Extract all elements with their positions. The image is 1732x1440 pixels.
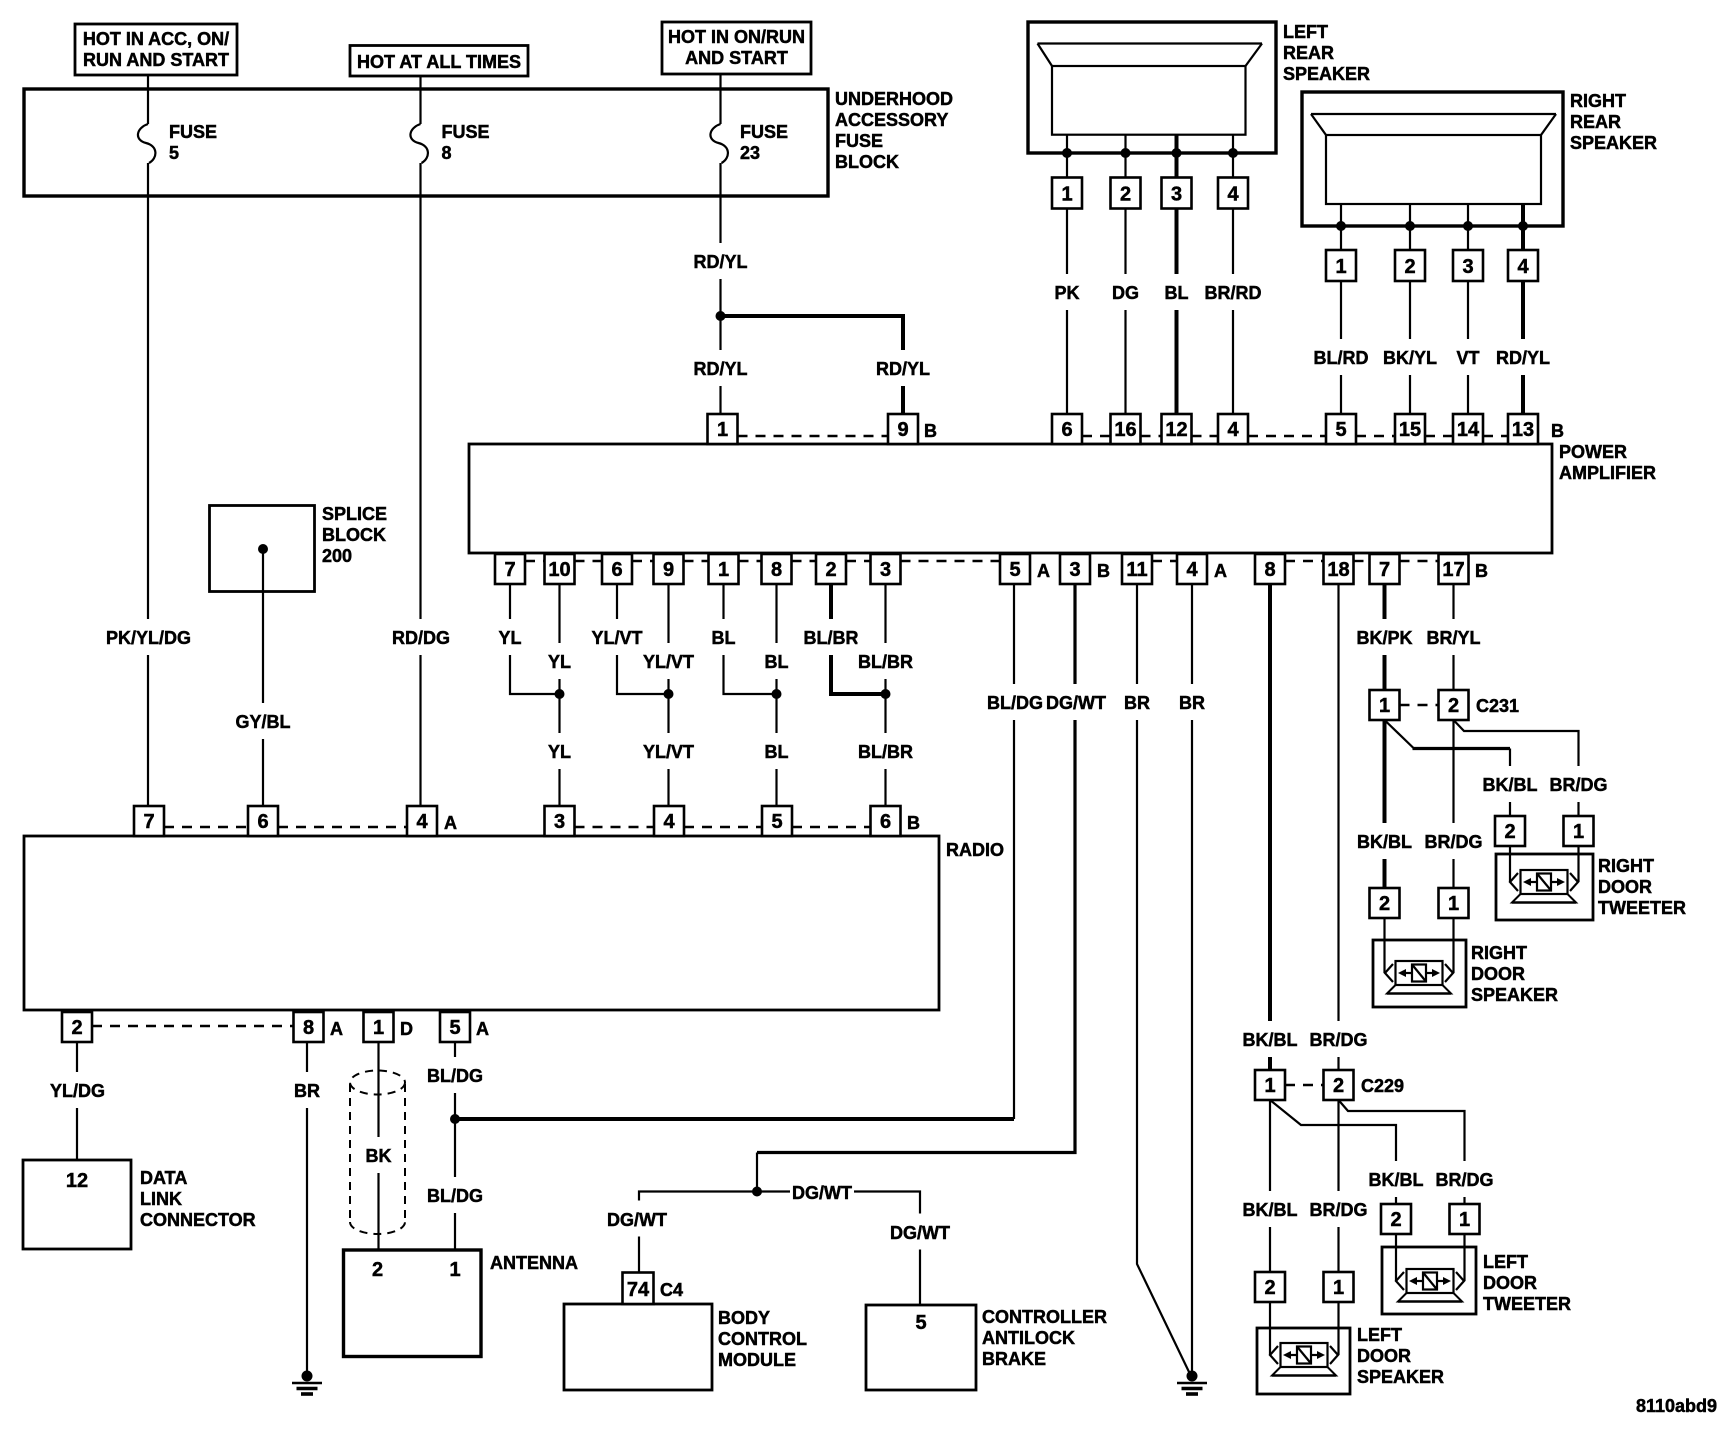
right rear speaker lead wires xyxy=(1336,204,1528,250)
left door tweeter pin 1 xyxy=(1450,1204,1480,1234)
svg-text:1: 1 xyxy=(373,1017,384,1039)
wire C229 pin 2 to left door speaker pin 1 BR/DG xyxy=(1308,1100,1370,1272)
svg-text:DG/WT: DG/WT xyxy=(1046,693,1106,713)
svg-text:C229: C229 xyxy=(1361,1076,1404,1096)
amp bottom pin 8 right xyxy=(1255,554,1285,584)
wire left rear speaker pin2 to amp pin 16 DG xyxy=(1108,209,1143,415)
svg-text:A: A xyxy=(1037,561,1050,581)
svg-text:2: 2 xyxy=(825,559,836,581)
svg-text:REAR: REAR xyxy=(1283,43,1334,63)
svg-text:3: 3 xyxy=(880,559,891,581)
amp bottom pin 17 xyxy=(1439,554,1489,584)
svg-text:BR/DG: BR/DG xyxy=(1310,1030,1368,1050)
svg-text:7: 7 xyxy=(1379,559,1390,581)
svg-text:YL/VT: YL/VT xyxy=(591,628,642,648)
svg-text:LEFT: LEFT xyxy=(1357,1325,1402,1345)
svg-text:DOOR: DOOR xyxy=(1598,877,1652,897)
svg-text:A: A xyxy=(444,813,457,833)
amp bottom connector dashes xyxy=(525,560,1439,562)
svg-text:2: 2 xyxy=(1404,256,1415,278)
wire amp pin 7 to C231 pin 1 BK/PK xyxy=(1356,584,1413,690)
svg-text:SPEAKER: SPEAKER xyxy=(1357,1367,1444,1387)
svg-text:GY/BL: GY/BL xyxy=(235,712,290,732)
svg-text:SPEAKER: SPEAKER xyxy=(1283,64,1370,84)
amp top pin 12 xyxy=(1162,414,1192,444)
svg-text:DOOR: DOOR xyxy=(1357,1346,1411,1366)
svg-text:RIGHT: RIGHT xyxy=(1570,91,1626,111)
left door speaker pin 1 xyxy=(1324,1272,1354,1302)
wire DG/WT to controller antilock brake xyxy=(757,1174,952,1306)
wire radio pin 5 to antenna pin 1 BL/DG xyxy=(425,1042,486,1250)
svg-text:3: 3 xyxy=(1171,184,1182,206)
svg-text:RIGHT: RIGHT xyxy=(1471,943,1527,963)
radio top pin 3 xyxy=(545,806,575,836)
svg-text:BODY: BODY xyxy=(718,1308,770,1328)
wire C229 pin 1 branch to left door tweeter pin 2 BK/BL xyxy=(1270,1100,1424,1204)
svg-text:RIGHT: RIGHT xyxy=(1598,856,1654,876)
wire fuse 5 to radio pin 7 PK/YL/DG xyxy=(103,163,193,806)
svg-text:CONNECTOR: CONNECTOR xyxy=(140,1210,256,1230)
svg-text:74: 74 xyxy=(627,1279,650,1301)
svg-text:BL: BL xyxy=(1165,283,1189,303)
svg-text:16: 16 xyxy=(1114,419,1136,441)
wire amp pin 18 to C229 pin 2 BR/DG xyxy=(1308,584,1370,1070)
wire right rear speaker pin4 to amp pin 13 RD/YL xyxy=(1494,281,1552,414)
wire right rear speaker pin1 to amp pin 5 BL/RD xyxy=(1312,281,1370,414)
svg-text:VT: VT xyxy=(1456,348,1479,368)
fuse 23 xyxy=(710,89,788,163)
junction DG/WT xyxy=(752,1187,762,1197)
junction BL/DG xyxy=(450,1114,460,1124)
wire C229 pin 2 branch to left door tweeter pin 1 BR/DG xyxy=(1339,1100,1497,1204)
wire amp pin 3 B DG/WT tree xyxy=(757,584,1106,1192)
svg-text:11: 11 xyxy=(1126,559,1147,581)
svg-text:DATA: DATA xyxy=(140,1168,187,1188)
svg-text:2: 2 xyxy=(1379,893,1390,915)
svg-text:10: 10 xyxy=(548,559,570,581)
wire branch BL/DG to amp pin 5 A xyxy=(455,584,1044,1119)
svg-text:BL/DG: BL/DG xyxy=(427,1066,483,1086)
left door tweeter pin 2 xyxy=(1381,1204,1411,1234)
svg-text:BR: BR xyxy=(294,1081,320,1101)
wire amp pin 11 BR to ground xyxy=(1119,584,1190,1374)
svg-text:CONTROLLER: CONTROLLER xyxy=(982,1307,1107,1327)
svg-text:HOT IN ON/RUN: HOT IN ON/RUN xyxy=(668,27,805,47)
amp bottom pin 1 xyxy=(709,554,739,584)
svg-text:BR/RD: BR/RD xyxy=(1205,283,1262,303)
splice block 200 xyxy=(210,504,388,592)
amp bottom pin 6 xyxy=(602,554,632,584)
amp bottom pin 3 B xyxy=(1060,554,1110,584)
amp top pin 5 xyxy=(1326,414,1356,444)
svg-text:3: 3 xyxy=(554,811,565,833)
svg-text:DOOR: DOOR xyxy=(1483,1273,1537,1293)
svg-text:YL: YL xyxy=(548,652,571,672)
svg-text:5: 5 xyxy=(915,1312,926,1334)
svg-text:A: A xyxy=(330,1019,343,1039)
amp top connector dashes xyxy=(738,435,1509,437)
svg-text:5: 5 xyxy=(449,1017,460,1039)
svg-text:B: B xyxy=(907,813,920,833)
svg-text:AMPLIFIER: AMPLIFIER xyxy=(1559,463,1656,483)
junction BL/BR xyxy=(881,689,891,699)
wire C231 pin 1 to right door speaker pin 2 BK/BL xyxy=(1356,720,1412,888)
svg-text:4: 4 xyxy=(416,811,428,833)
svg-text:FUSE: FUSE xyxy=(169,122,217,142)
svg-text:7: 7 xyxy=(504,559,515,581)
svg-text:YL: YL xyxy=(498,628,521,648)
svg-text:1: 1 xyxy=(449,1259,460,1281)
svg-text:18: 18 xyxy=(1327,559,1349,581)
svg-text:BK/BL: BK/BL xyxy=(1243,1030,1298,1050)
right rear speaker pin 3 xyxy=(1453,250,1483,281)
amp top pin 6 xyxy=(1052,414,1082,444)
svg-text:BL/RD: BL/RD xyxy=(1314,348,1369,368)
wire C231 pin 2 branch to right door tweeter pin 1 BR/DG xyxy=(1454,720,1611,816)
radio top pin 6 xyxy=(248,806,278,836)
svg-text:6: 6 xyxy=(880,811,891,833)
svg-text:9: 9 xyxy=(897,419,908,441)
svg-text:LEFT: LEFT xyxy=(1283,22,1328,42)
wire amp pin 9 to radio pin 4 YL/VT xyxy=(641,584,697,806)
svg-text:1: 1 xyxy=(718,559,729,581)
wire left rear speaker pin3 to amp pin 12 BL xyxy=(1161,209,1192,415)
svg-text:BRAKE: BRAKE xyxy=(982,1349,1046,1369)
svg-text:BR: BR xyxy=(1124,693,1150,713)
svg-text:PK: PK xyxy=(1054,283,1079,303)
svg-text:8: 8 xyxy=(771,559,782,581)
wire hot all times box to fuse block xyxy=(419,76,421,89)
wire amp pin 6 YL/VT to junction xyxy=(589,584,669,694)
left rear speaker pin 4 xyxy=(1218,178,1248,209)
svg-text:ACCESSORY: ACCESSORY xyxy=(835,110,948,130)
amp bottom pin 7 xyxy=(495,554,525,584)
radio bottom pin 8 A xyxy=(294,1012,344,1042)
wire branch RD/YL to amp pin 9 xyxy=(721,316,933,414)
amp bottom pin 8 xyxy=(762,554,792,584)
svg-text:8110abd9: 8110abd9 xyxy=(1636,1396,1717,1416)
svg-text:2: 2 xyxy=(1120,184,1131,206)
power amplifier box xyxy=(469,442,1656,553)
radio top pin 4 xyxy=(654,806,684,836)
svg-text:BL: BL xyxy=(712,628,736,648)
wire hot acc box to fuse block xyxy=(147,75,149,89)
svg-text:HOT IN ACC, ON/: HOT IN ACC, ON/ xyxy=(83,29,229,49)
svg-text:BK/BL: BK/BL xyxy=(1357,832,1412,852)
svg-text:BL/BR: BL/BR xyxy=(858,742,913,762)
svg-text:BR/DG: BR/DG xyxy=(1310,1200,1368,1220)
svg-text:RADIO: RADIO xyxy=(946,840,1004,860)
svg-text:3: 3 xyxy=(1462,256,1473,278)
wire hot on/run box to fuse block xyxy=(719,74,721,89)
svg-text:TWEETER: TWEETER xyxy=(1483,1294,1571,1314)
radio bottom connector dashes xyxy=(92,1025,294,1027)
connector C231 xyxy=(1370,690,1520,720)
wire splice block to radio pin 6 GY/BL xyxy=(233,549,293,806)
svg-text:BL/DG: BL/DG xyxy=(427,1186,483,1206)
amp bottom pin 18 xyxy=(1324,554,1354,584)
radio top pin 5 xyxy=(762,806,792,836)
svg-text:1: 1 xyxy=(1379,695,1390,717)
svg-text:1: 1 xyxy=(1061,184,1072,206)
amp top pin 9 xyxy=(888,414,937,444)
svg-text:MODULE: MODULE xyxy=(718,1350,796,1370)
svg-text:RUN AND START: RUN AND START xyxy=(83,50,229,70)
svg-text:1: 1 xyxy=(1264,1075,1275,1097)
left door tweeter xyxy=(1382,1234,1571,1314)
wire left rear speaker pin4 to amp pin 4 BR/RD xyxy=(1204,209,1262,415)
junction RD/YL xyxy=(716,311,726,321)
svg-text:2: 2 xyxy=(1504,821,1515,843)
fuse 5 xyxy=(138,89,217,163)
wire amp pin 3 to radio pin 6 BL/BR xyxy=(858,584,914,806)
svg-text:4: 4 xyxy=(1186,559,1198,581)
body control module xyxy=(564,1273,807,1391)
svg-text:5: 5 xyxy=(169,143,179,163)
svg-text:15: 15 xyxy=(1399,419,1421,441)
left rear speaker pin 1 xyxy=(1052,178,1082,209)
shield cylinder BK xyxy=(350,1071,405,1235)
svg-text:BL: BL xyxy=(765,652,789,672)
right door speaker xyxy=(1373,918,1558,1007)
left door speaker xyxy=(1257,1302,1444,1394)
svg-text:B: B xyxy=(1475,561,1488,581)
svg-text:BK/PK: BK/PK xyxy=(1356,628,1412,648)
svg-text:YL: YL xyxy=(548,742,571,762)
right door tweeter pin 1 xyxy=(1564,816,1594,846)
svg-text:BL/DG: BL/DG xyxy=(987,693,1043,713)
wire right rear speaker pin3 to amp pin 14 VT xyxy=(1452,281,1484,414)
svg-text:1: 1 xyxy=(717,419,728,441)
left rear speaker pin 2 xyxy=(1111,178,1141,209)
svg-text:DG: DG xyxy=(1112,283,1139,303)
svg-text:9: 9 xyxy=(663,559,674,581)
junction BL xyxy=(772,689,782,699)
wire amp pin 8 to C229 pin 1 BK/BL xyxy=(1242,584,1298,1070)
svg-text:CONTROL: CONTROL xyxy=(718,1329,807,1349)
wire amp pin 2 BL/BR to junction xyxy=(803,584,886,694)
wire radio pin 8 to ground BR xyxy=(289,1042,325,1374)
svg-text:BLOCK: BLOCK xyxy=(835,152,899,172)
wire fuse 8 to radio pin 4A RD/DG xyxy=(392,163,450,806)
svg-text:POWER: POWER xyxy=(1559,442,1627,462)
amp bottom pin 10 xyxy=(545,554,575,584)
svg-text:BK/BL: BK/BL xyxy=(1369,1170,1424,1190)
svg-text:12: 12 xyxy=(66,1170,88,1192)
svg-text:2: 2 xyxy=(1264,1277,1275,1299)
svg-text:C231: C231 xyxy=(1476,696,1519,716)
amp bottom pin 4 xyxy=(1177,554,1227,584)
svg-text:ANTENNA: ANTENNA xyxy=(490,1253,578,1273)
svg-text:RD/YL: RD/YL xyxy=(1496,348,1550,368)
left door speaker pin 2 xyxy=(1255,1272,1285,1302)
wire amp pin 17 to C231 pin 2 BR/YL xyxy=(1425,584,1483,690)
svg-text:LINK: LINK xyxy=(140,1189,182,1209)
svg-text:1: 1 xyxy=(1448,893,1459,915)
wire right rear speaker pin2 to amp pin 15 BK/YL xyxy=(1381,281,1439,414)
svg-text:8: 8 xyxy=(1264,559,1275,581)
left rear speaker lead wires xyxy=(1062,135,1238,178)
right rear speaker pin 2 xyxy=(1395,250,1425,281)
wire C231 pin 1 branch to right door tweeter pin 2 BK/BL xyxy=(1385,720,1539,816)
amp top pin 16 xyxy=(1111,414,1141,444)
junction YL/VT xyxy=(664,689,674,699)
svg-text:BR/YL: BR/YL xyxy=(1427,628,1481,648)
svg-text:A: A xyxy=(476,1019,489,1039)
amp top pin 15 xyxy=(1395,414,1425,444)
wire amp pin 4 A BR to ground xyxy=(1174,584,1210,1371)
right rear speaker pin 4 xyxy=(1508,250,1538,281)
wire C229 pin 1 to left door speaker pin 2 BK/BL xyxy=(1242,1100,1298,1272)
amp top pin 4 xyxy=(1218,414,1248,444)
svg-text:17: 17 xyxy=(1442,559,1464,581)
svg-text:SPLICE: SPLICE xyxy=(322,504,387,524)
svg-text:UNDERHOOD: UNDERHOOD xyxy=(835,89,953,109)
svg-text:BK/BL: BK/BL xyxy=(1483,775,1538,795)
svg-text:RD/YL: RD/YL xyxy=(694,359,748,379)
fuse 8 xyxy=(410,89,489,163)
wire fuse 23 to amp pin 1 RD/YL xyxy=(692,163,749,414)
svg-text:HOT AT ALL TIMES: HOT AT ALL TIMES xyxy=(357,52,521,72)
svg-text:FUSE: FUSE xyxy=(442,122,490,142)
svg-text:5: 5 xyxy=(771,811,782,833)
svg-text:8: 8 xyxy=(442,143,452,163)
svg-text:SPEAKER: SPEAKER xyxy=(1471,985,1558,1005)
svg-text:BR/DG: BR/DG xyxy=(1425,832,1483,852)
svg-text:BL: BL xyxy=(765,742,789,762)
svg-text:23: 23 xyxy=(740,143,760,163)
svg-text:4: 4 xyxy=(663,811,675,833)
svg-text:LEFT: LEFT xyxy=(1483,1252,1528,1272)
amp top pin 13 xyxy=(1508,414,1564,444)
svg-text:YL/DG: YL/DG xyxy=(50,1081,105,1101)
splice dot xyxy=(258,544,268,554)
svg-text:RD/DG: RD/DG xyxy=(392,628,450,648)
svg-text:YL/VT: YL/VT xyxy=(643,652,694,672)
svg-text:5: 5 xyxy=(1335,419,1346,441)
svg-text:1: 1 xyxy=(1335,256,1346,278)
svg-text:4: 4 xyxy=(1517,256,1529,278)
wire C231 pin 2 to right door speaker pin 1 BR/DG xyxy=(1423,720,1485,888)
right rear speaker xyxy=(1302,91,1657,226)
wire DG/WT to body control module xyxy=(605,1192,757,1273)
svg-text:BK/BL: BK/BL xyxy=(1243,1200,1298,1220)
svg-text:6: 6 xyxy=(257,811,268,833)
amp top pin 1 xyxy=(708,414,738,444)
wire amp pin 8 to radio pin 5 BL xyxy=(761,584,793,806)
svg-text:FUSE: FUSE xyxy=(740,122,788,142)
svg-text:2: 2 xyxy=(372,1259,383,1281)
amp bottom pin 9 xyxy=(654,554,684,584)
svg-text:AND START: AND START xyxy=(685,48,788,68)
wire left rear speaker pin1 to amp pin 6 PK xyxy=(1050,209,1084,415)
junction YL xyxy=(555,689,565,699)
svg-text:3: 3 xyxy=(1069,559,1080,581)
svg-text:SPEAKER: SPEAKER xyxy=(1570,133,1657,153)
right door speaker pin 2 xyxy=(1370,888,1400,918)
svg-text:8: 8 xyxy=(303,1017,314,1039)
header box HOT AT ALL TIMES xyxy=(350,46,528,77)
svg-text:4: 4 xyxy=(1227,419,1239,441)
controller antilock brake xyxy=(866,1305,1107,1390)
svg-text:B: B xyxy=(924,421,937,441)
ground left xyxy=(292,1371,322,1395)
svg-text:DG/WT: DG/WT xyxy=(607,1210,667,1230)
radio bottom pin 2 xyxy=(62,1012,92,1042)
svg-text:BK: BK xyxy=(366,1146,392,1166)
svg-text:BL/BR: BL/BR xyxy=(804,628,859,648)
svg-text:7: 7 xyxy=(143,811,154,833)
svg-text:DG/WT: DG/WT xyxy=(792,1183,852,1203)
svg-text:2: 2 xyxy=(71,1017,82,1039)
svg-text:12: 12 xyxy=(1165,419,1187,441)
svg-text:2: 2 xyxy=(1390,1209,1401,1231)
amp bottom pin 2 xyxy=(816,554,846,584)
svg-text:5: 5 xyxy=(1009,559,1020,581)
svg-text:2: 2 xyxy=(1448,695,1459,717)
right door tweeter pin 2 xyxy=(1495,816,1525,846)
radio box xyxy=(24,836,1004,1010)
wire amp pin 7 YL to junction xyxy=(494,584,560,694)
svg-text:BR/DG: BR/DG xyxy=(1550,775,1608,795)
radio top pin 7 xyxy=(134,806,164,836)
wire radio pin 1 to antenna pin 2 xyxy=(360,1042,397,1250)
right door speaker pin 1 xyxy=(1439,888,1469,918)
header box HOT IN ON/RUN AND START xyxy=(662,22,811,74)
svg-text:YL/VT: YL/VT xyxy=(643,742,694,762)
svg-text:BK/YL: BK/YL xyxy=(1383,348,1437,368)
svg-text:1: 1 xyxy=(1459,1209,1470,1231)
header box HOT IN ACC, ON/ RUN AND START xyxy=(75,24,237,75)
svg-text:DG/WT: DG/WT xyxy=(890,1223,950,1243)
svg-text:6: 6 xyxy=(1061,419,1072,441)
svg-text:D: D xyxy=(400,1019,413,1039)
svg-text:BR: BR xyxy=(1179,693,1205,713)
amp bottom pin 3 xyxy=(871,554,901,584)
data link connector xyxy=(23,1160,256,1249)
radio top connector dashes xyxy=(164,826,871,828)
svg-text:DOOR: DOOR xyxy=(1471,964,1525,984)
svg-text:1: 1 xyxy=(1333,1277,1344,1299)
svg-text:PK/YL/DG: PK/YL/DG xyxy=(106,628,191,648)
svg-text:RD/YL: RD/YL xyxy=(876,359,930,379)
svg-text:BL/BR: BL/BR xyxy=(858,652,913,672)
amp bottom pin 11 xyxy=(1122,554,1152,584)
underhood accessory fuse block xyxy=(24,89,953,196)
antenna xyxy=(344,1250,579,1357)
connector C229 xyxy=(1255,1070,1404,1100)
amp top pin 14 xyxy=(1453,414,1483,444)
svg-text:200: 200 xyxy=(322,546,352,566)
svg-text:6: 6 xyxy=(611,559,622,581)
wire amp pin 10 to radio pin 3 YL xyxy=(544,584,576,806)
svg-text:B: B xyxy=(1551,421,1564,441)
svg-text:TWEETER: TWEETER xyxy=(1598,898,1686,918)
svg-text:4: 4 xyxy=(1227,184,1239,206)
svg-text:BLOCK: BLOCK xyxy=(322,525,386,545)
radio top pin 4 A xyxy=(407,806,457,836)
svg-text:BR/DG: BR/DG xyxy=(1436,1170,1494,1190)
amp bottom pin 5 xyxy=(1000,554,1050,584)
left rear speaker xyxy=(1028,22,1370,153)
wire amp pin 1 BL to junction xyxy=(708,584,777,694)
left rear speaker pin 3 xyxy=(1162,178,1192,209)
svg-text:2: 2 xyxy=(1333,1075,1344,1097)
svg-text:13: 13 xyxy=(1512,419,1534,441)
svg-text:FUSE: FUSE xyxy=(835,131,883,151)
amp bottom pin 7 right xyxy=(1370,554,1400,584)
svg-text:ANTILOCK: ANTILOCK xyxy=(982,1328,1075,1348)
